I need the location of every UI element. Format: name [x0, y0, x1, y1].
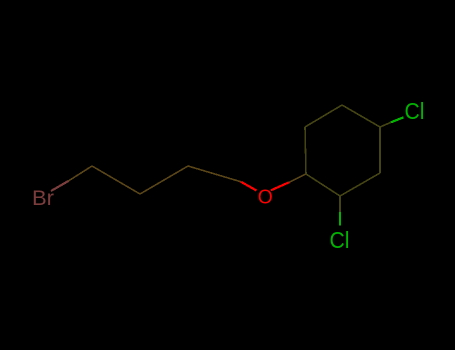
benzene ring edge C5'-C6' — [305, 105, 342, 127]
bond C3-O (carbon half) — [188, 166, 241, 182]
benzene ring edge C2'-C3' — [340, 173, 380, 196]
bond Br-C1 (carbon half) — [69, 166, 93, 181]
bond C3-O (O half, red) — [241, 182, 257, 191]
svg-text:Br: Br — [32, 186, 54, 210]
bond Br-C1 (Br half, dark red) — [51, 181, 69, 191]
benzene ring edge C3'-C4' — [379, 127, 381, 173]
bond C2-C3 — [140, 166, 188, 194]
bond C2'-Cl (Cl half, green) — [339, 212, 341, 226]
bond O-ring C1' (carbon half) — [289, 174, 306, 182]
benzene ring edge C1'-C2' — [306, 174, 340, 196]
svg-text:O: O — [258, 187, 273, 209]
svg-text:Cl: Cl — [330, 227, 350, 253]
benzene ring edge C6'-C1' — [305, 127, 306, 174]
bond C1-C2 — [92, 166, 140, 194]
bond C2'-Cl (carbon half) — [339, 196, 341, 212]
bond C4'-Cl (Cl half, green) — [391, 117, 404, 122]
svg-text:Cl: Cl — [405, 98, 425, 124]
bond O-ring C1' (O half, red) — [271, 182, 289, 190]
benzene ring edge C4'-C5' — [342, 105, 380, 127]
bond C4'-Cl (carbon half) — [380, 122, 391, 127]
